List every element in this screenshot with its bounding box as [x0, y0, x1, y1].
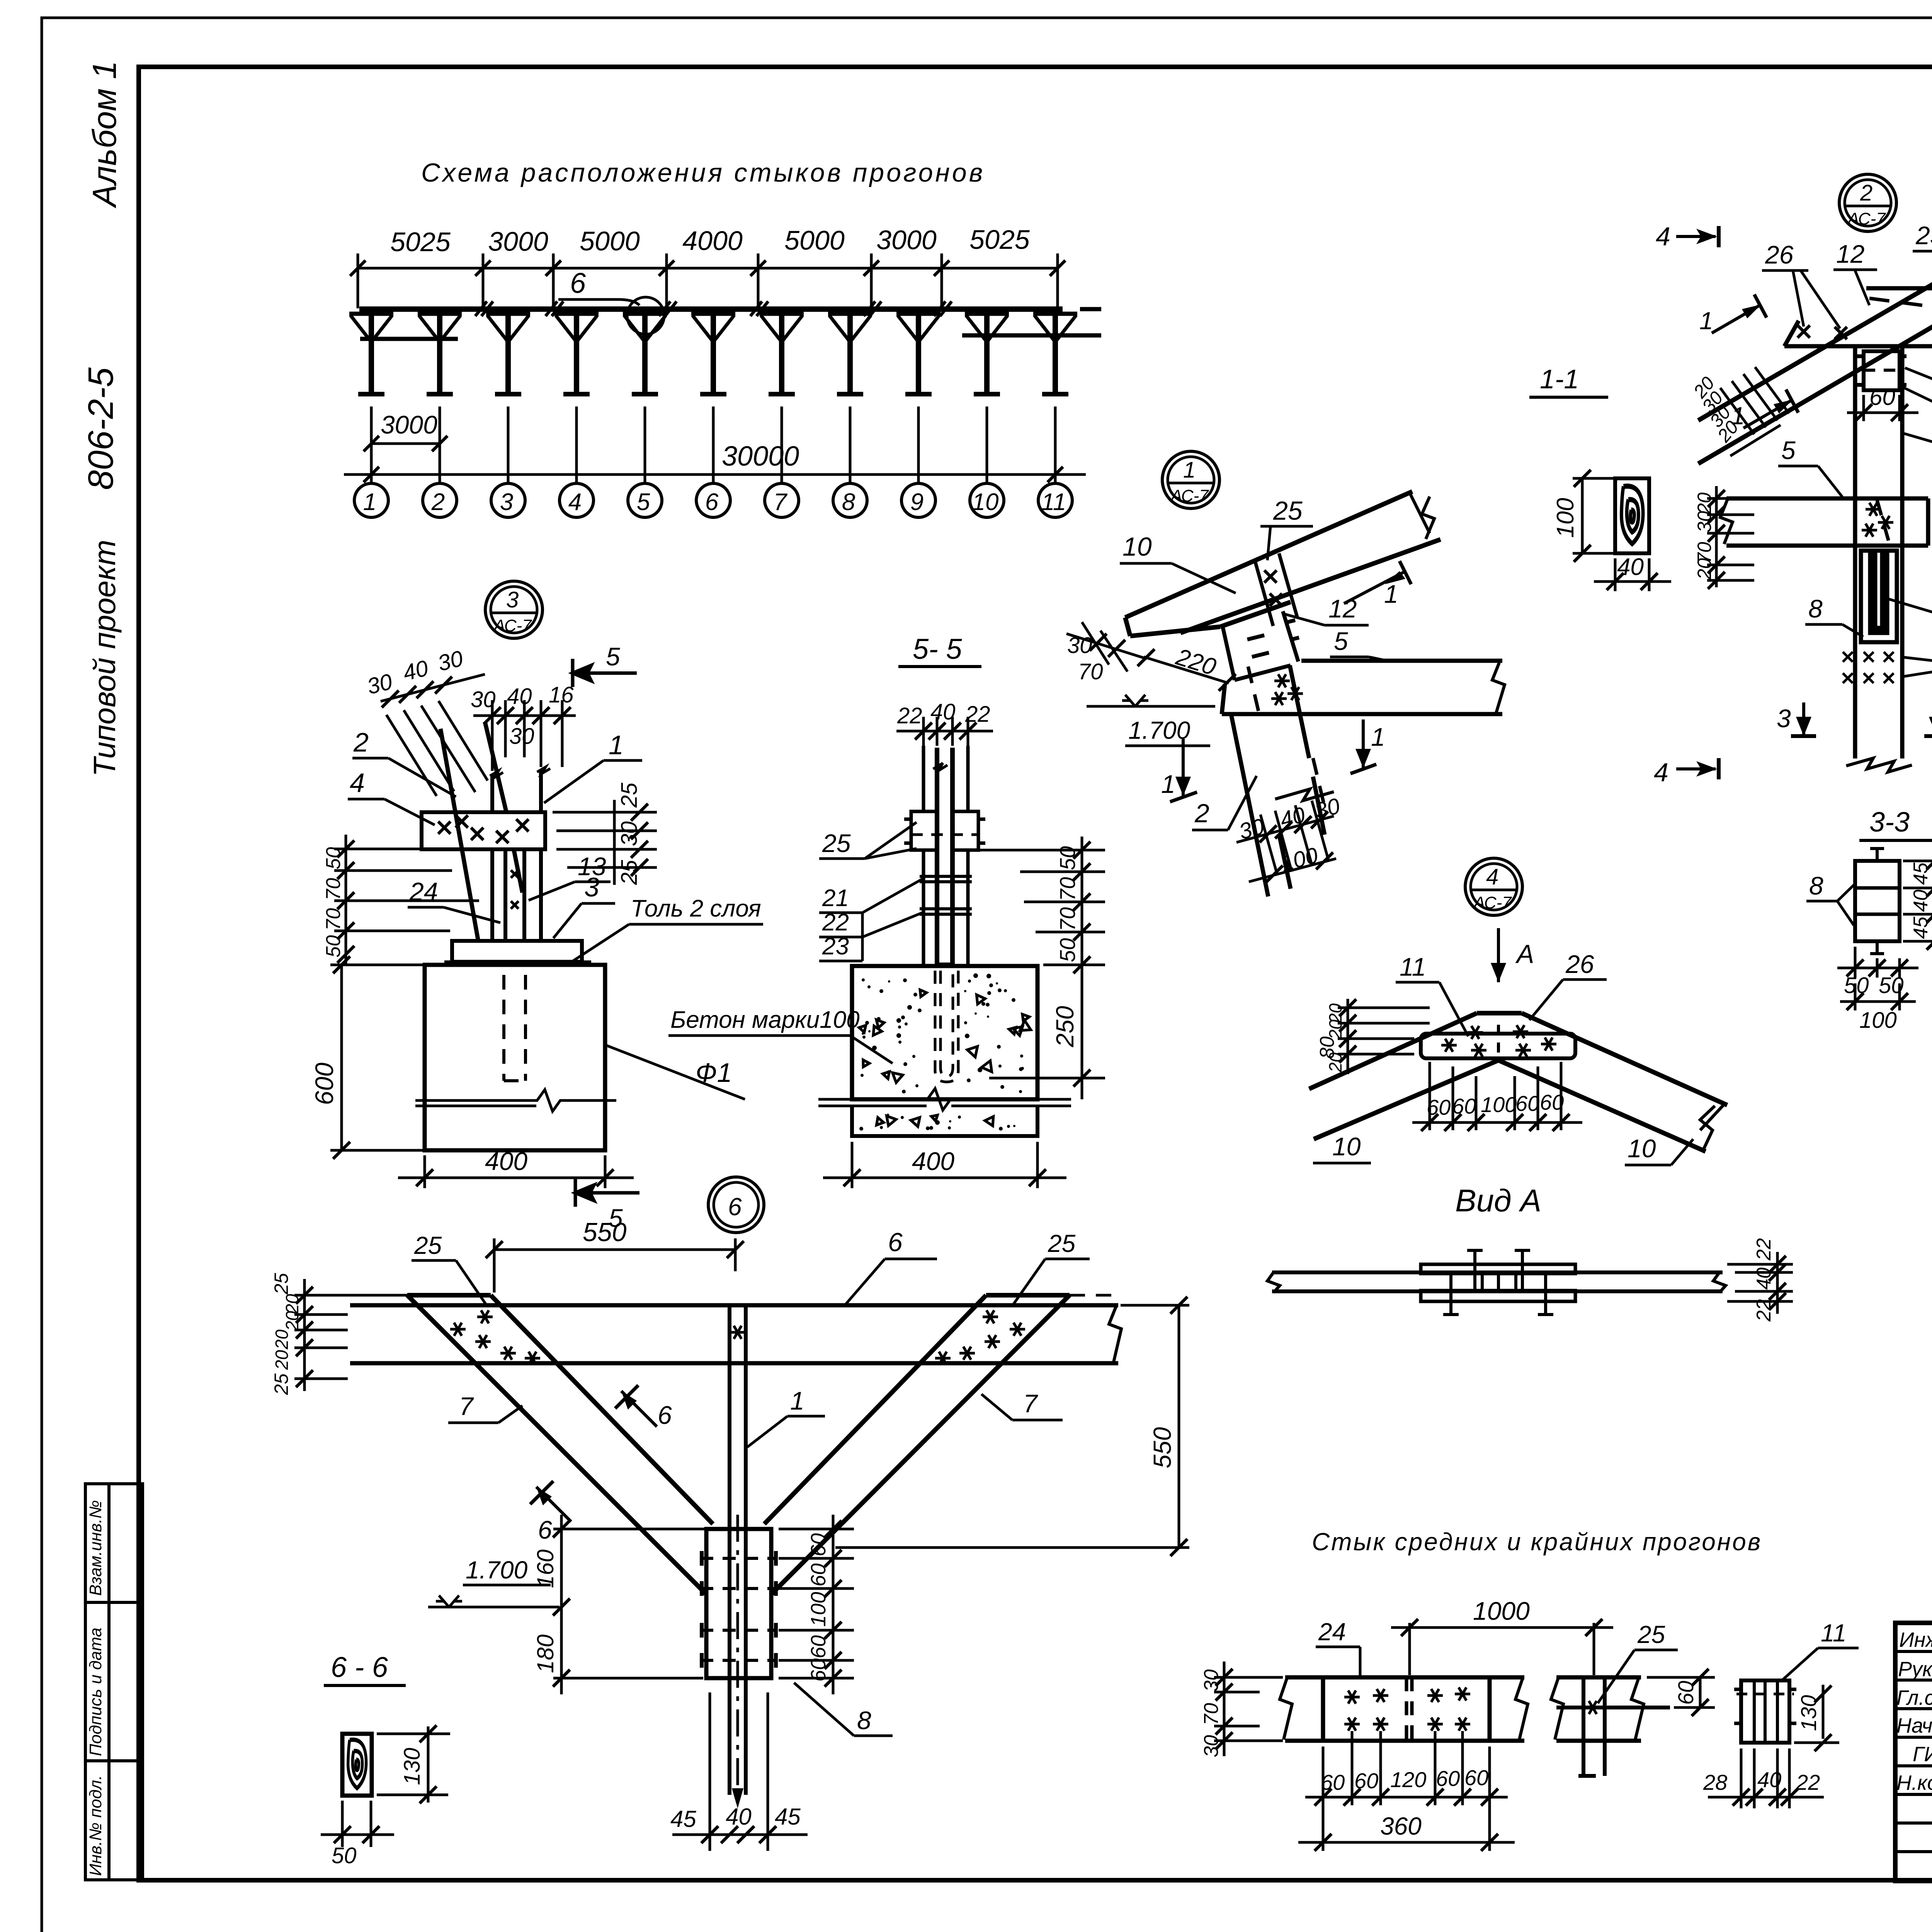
svg-text:130: 130: [1796, 1695, 1821, 1731]
svg-text:50: 50: [322, 847, 345, 869]
svg-text:Н.контр.: Н.контр.: [1896, 1771, 1932, 1794]
svg-text:250: 250: [1051, 1006, 1079, 1048]
svg-text:40: 40: [1757, 1767, 1781, 1792]
svg-text:45: 45: [670, 1806, 696, 1832]
svg-text:70: 70: [1055, 877, 1080, 901]
svg-text:5: 5: [1781, 436, 1796, 464]
svg-text:60: 60: [1515, 1091, 1539, 1116]
svg-text:70: 70: [1055, 907, 1080, 931]
svg-text:40: 40: [726, 1804, 752, 1830]
svg-text:20: 20: [282, 1311, 302, 1331]
svg-text:60: 60: [1321, 1770, 1345, 1794]
svg-text:100: 100: [1481, 1092, 1517, 1117]
svg-text:2: 2: [1194, 799, 1209, 828]
svg-text:Альбом 1: Альбом 1: [86, 61, 123, 209]
svg-text:АС-7: АС-7: [1170, 486, 1209, 505]
svg-text:4: 4: [350, 768, 365, 798]
svg-text:5- 5: 5- 5: [913, 633, 962, 665]
svg-text:60: 60: [1427, 1095, 1451, 1119]
svg-text:12: 12: [1836, 240, 1864, 268]
svg-text:3: 3: [1777, 704, 1791, 733]
svg-text:400: 400: [912, 1147, 954, 1175]
svg-text:7: 7: [459, 1392, 474, 1420]
svg-text:45: 45: [1910, 916, 1932, 939]
svg-text:Типовой проект: Типовой проект: [87, 540, 122, 777]
svg-text:7: 7: [1023, 1389, 1038, 1418]
svg-text:2: 2: [353, 727, 369, 757]
svg-text:9: 9: [910, 489, 923, 515]
svg-text:1: 1: [1183, 457, 1196, 483]
svg-text:20: 20: [1694, 558, 1715, 580]
svg-text:24: 24: [1318, 1618, 1346, 1646]
svg-text:60: 60: [1354, 1769, 1378, 1793]
svg-text:1: 1: [1161, 770, 1175, 798]
svg-text:3: 3: [500, 489, 513, 515]
svg-text:25: 25: [822, 829, 851, 857]
svg-text:25: 25: [1048, 1230, 1076, 1257]
svg-text:40: 40: [507, 684, 532, 709]
svg-text:40: 40: [1617, 554, 1644, 580]
svg-text:АС-7: АС-7: [1473, 893, 1512, 912]
svg-text:6: 6: [658, 1401, 672, 1429]
svg-text:8: 8: [1809, 871, 1823, 900]
svg-text:100: 100: [807, 1592, 830, 1627]
svg-text:2: 2: [1860, 180, 1872, 206]
svg-text:6: 6: [538, 1515, 552, 1544]
svg-text:7: 7: [774, 489, 788, 515]
svg-text:4000: 4000: [682, 226, 743, 256]
svg-text:20: 20: [272, 1350, 292, 1370]
svg-text:5000: 5000: [580, 226, 640, 256]
svg-text:Инв.№ подл.: Инв.№ подл.: [86, 1775, 105, 1876]
svg-text:Стык средних и крайних прогоно: Стык средних и крайних прогонов: [1312, 1528, 1762, 1556]
svg-text:Бетон марки100: Бетон марки100: [670, 1007, 860, 1033]
svg-text:60: 60: [1869, 384, 1895, 410]
svg-text:60: 60: [1540, 1090, 1564, 1114]
svg-text:25: 25: [270, 1273, 292, 1295]
svg-text:600: 600: [310, 1063, 338, 1105]
svg-text:10: 10: [1628, 1134, 1656, 1163]
svg-text:30: 30: [1200, 1669, 1223, 1692]
svg-text:25: 25: [1273, 496, 1303, 526]
svg-text:3: 3: [506, 587, 519, 612]
svg-text:6: 6: [570, 267, 586, 299]
svg-text:Нач.отд.: Нач.отд.: [1896, 1714, 1932, 1737]
svg-text:10: 10: [1332, 1132, 1361, 1161]
svg-text:26: 26: [1765, 240, 1794, 269]
svg-text:30: 30: [1067, 633, 1092, 658]
svg-text:550: 550: [583, 1218, 627, 1247]
svg-text:20: 20: [272, 1329, 292, 1350]
svg-text:8: 8: [857, 1706, 871, 1735]
svg-text:40: 40: [1910, 889, 1932, 912]
svg-text:50: 50: [322, 935, 345, 957]
svg-text:4: 4: [1656, 222, 1670, 251]
svg-text:Подпись и дата: Подпись и дата: [86, 1628, 105, 1756]
svg-text:3: 3: [584, 872, 599, 902]
svg-text:1000: 1000: [1473, 1597, 1530, 1625]
svg-text:Рук. гр.: Рук. гр.: [1898, 1658, 1932, 1681]
svg-text:30000: 30000: [722, 441, 799, 472]
svg-text:30: 30: [1200, 1735, 1223, 1757]
svg-text:1: 1: [1699, 307, 1713, 335]
svg-text:3000: 3000: [381, 410, 437, 439]
svg-text:120: 120: [1390, 1767, 1426, 1792]
svg-text:22: 22: [1753, 1299, 1775, 1322]
svg-text:5: 5: [1334, 627, 1348, 655]
svg-text:22: 22: [822, 909, 849, 936]
svg-text:4: 4: [1654, 758, 1668, 787]
svg-text:6: 6: [705, 489, 719, 515]
svg-text:1.700: 1.700: [1128, 716, 1190, 744]
svg-text:25: 25: [617, 782, 642, 808]
svg-text:10: 10: [1122, 532, 1152, 561]
svg-text:130: 130: [400, 1748, 425, 1785]
svg-text:8: 8: [842, 489, 855, 515]
svg-text:Гл.спец.: Гл.спец.: [1896, 1686, 1932, 1709]
svg-text:25: 25: [270, 1373, 292, 1395]
svg-text:1: 1: [790, 1386, 804, 1415]
svg-text:Схема расположения стыков прог: Схема расположения стыков прогонов: [421, 158, 985, 187]
svg-text:Вид А: Вид А: [1455, 1183, 1541, 1218]
svg-text:25: 25: [414, 1231, 442, 1259]
svg-text:100: 100: [1859, 1008, 1897, 1033]
svg-text:180: 180: [532, 1634, 558, 1673]
svg-text:70: 70: [322, 908, 345, 930]
svg-text:45: 45: [775, 1804, 801, 1830]
svg-text:23: 23: [822, 933, 849, 960]
svg-text:60: 60: [807, 1635, 830, 1658]
svg-text:360: 360: [1380, 1812, 1422, 1840]
svg-text:6: 6: [728, 1193, 742, 1221]
svg-text:60: 60: [807, 1563, 830, 1587]
svg-text:22: 22: [1753, 1238, 1775, 1261]
svg-text:5: 5: [606, 642, 620, 671]
svg-text:60: 60: [1673, 1681, 1698, 1705]
svg-text:Толь 2 слоя: Толь 2 слоя: [631, 895, 761, 922]
svg-text:21: 21: [822, 885, 849, 912]
svg-text:40: 40: [1753, 1267, 1775, 1290]
svg-text:70: 70: [1200, 1703, 1223, 1725]
svg-text:11: 11: [1400, 952, 1426, 981]
svg-text:28: 28: [1703, 1770, 1727, 1794]
svg-text:22: 22: [897, 703, 922, 728]
svg-text:70: 70: [1078, 659, 1103, 684]
svg-text:1-1: 1-1: [1540, 364, 1579, 394]
svg-text:ГИП: ГИП: [1913, 1743, 1932, 1766]
svg-text:3000: 3000: [876, 225, 937, 255]
svg-text:АС-7: АС-7: [1847, 209, 1886, 228]
svg-text:4: 4: [568, 489, 582, 515]
svg-text:1: 1: [1371, 723, 1385, 751]
svg-text:25: 25: [1915, 221, 1932, 250]
svg-text:60: 60: [807, 1533, 830, 1556]
svg-text:А: А: [1515, 939, 1534, 969]
svg-text:70: 70: [322, 878, 345, 900]
svg-text:20: 20: [1325, 1052, 1345, 1073]
svg-text:2: 2: [431, 489, 445, 515]
svg-text:30: 30: [471, 687, 496, 712]
svg-text:100: 100: [1552, 498, 1579, 538]
svg-text:12: 12: [1328, 594, 1357, 623]
svg-text:400: 400: [485, 1147, 527, 1175]
svg-text:6 - 6: 6 - 6: [331, 1651, 388, 1683]
svg-text:8: 8: [1808, 594, 1823, 623]
svg-text:60: 60: [807, 1658, 830, 1682]
svg-text:60: 60: [1464, 1765, 1488, 1790]
svg-text:30: 30: [509, 724, 534, 749]
svg-text:5025: 5025: [969, 224, 1030, 255]
svg-text:60: 60: [1436, 1766, 1460, 1791]
svg-text:11: 11: [1821, 1619, 1846, 1647]
svg-text:50: 50: [332, 1843, 357, 1868]
svg-text:50: 50: [1055, 938, 1080, 962]
svg-text:6: 6: [888, 1228, 903, 1257]
svg-text:1.700: 1.700: [466, 1556, 528, 1584]
svg-text:50: 50: [1055, 846, 1080, 870]
svg-text:30: 30: [617, 821, 642, 846]
svg-text:40: 40: [930, 699, 956, 724]
svg-text:10: 10: [972, 489, 999, 515]
svg-text:АС-7: АС-7: [493, 616, 532, 635]
svg-text:3000: 3000: [488, 226, 548, 257]
svg-text:Инженер: Инженер: [1899, 1628, 1932, 1651]
svg-text:4: 4: [1486, 864, 1498, 889]
svg-text:550: 550: [1148, 1427, 1176, 1468]
svg-text:16: 16: [549, 682, 574, 707]
svg-text:45: 45: [1910, 862, 1932, 885]
svg-text:26: 26: [1565, 950, 1594, 978]
svg-text:1: 1: [609, 730, 624, 760]
svg-text:Взам.инв.№: Взам.инв.№: [86, 1500, 105, 1596]
svg-text:60: 60: [1452, 1094, 1476, 1118]
svg-text:5: 5: [637, 489, 650, 515]
svg-text:11: 11: [1041, 489, 1066, 515]
svg-text:22: 22: [1796, 1770, 1820, 1794]
svg-text:25: 25: [1637, 1621, 1665, 1648]
svg-text:24: 24: [409, 877, 438, 906]
svg-text:30: 30: [1694, 511, 1715, 532]
svg-text:22: 22: [965, 702, 990, 727]
svg-text:806-2-5: 806-2-5: [81, 367, 121, 490]
svg-text:1: 1: [363, 489, 376, 515]
svg-text:5025: 5025: [390, 227, 451, 257]
svg-text:25: 25: [617, 860, 642, 885]
svg-text:1: 1: [1384, 580, 1398, 608]
svg-text:3-3: 3-3: [1869, 807, 1910, 838]
svg-text:160: 160: [532, 1549, 558, 1588]
svg-text:5000: 5000: [784, 225, 845, 255]
